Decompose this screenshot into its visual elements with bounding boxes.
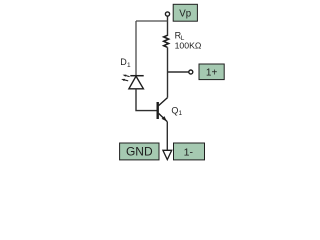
wire: Vp terminal down to resistor top	[167, 16, 169, 36]
svg-text:1-: 1-	[184, 147, 194, 159]
wire: emitter down to ground arrow	[166, 122, 168, 151]
terminal node 1+ (open circle)	[189, 70, 193, 74]
resistor R1 zigzag	[164, 35, 169, 47]
light arrow 1	[126, 76, 130, 77]
photodiode D1	[121, 75, 144, 89]
wire: top horizontal branch to photodiode	[136, 20, 168, 22]
collector lead	[159, 98, 168, 106]
connector label GND	[120, 143, 159, 160]
connector label 1+	[199, 64, 224, 80]
wire: photodiode anode down and right to base	[136, 89, 157, 111]
svg-text:Q: Q	[171, 106, 178, 116]
wire: left vertical down to photodiode cathode	[135, 21, 137, 76]
terminal node Vp (open circle)	[165, 12, 169, 16]
base bar	[156, 102, 158, 119]
ground arrow (open arrowhead to GND/1- rail)	[163, 150, 172, 159]
svg-text:1+: 1+	[206, 67, 218, 78]
emitter lead	[159, 113, 168, 121]
svg-text:1: 1	[127, 62, 131, 69]
wire: resistor bottom to 1+ junction	[167, 47, 169, 72]
svg-text:100KΩ: 100KΩ	[175, 40, 202, 50]
wire: 1+ junction down to collector	[167, 72, 169, 98]
svg-text:1: 1	[179, 110, 183, 117]
connector label 1-	[174, 143, 205, 160]
emitter arrowhead	[162, 116, 167, 121]
svg-text:GND: GND	[126, 145, 153, 159]
svg-text:Vp: Vp	[179, 8, 191, 19]
light arrow 2	[124, 80, 128, 81]
transistor Q1 (NPN)	[158, 98, 168, 122]
connector label Vp	[173, 4, 197, 21]
wire: junction to 1+ terminal	[168, 71, 189, 73]
